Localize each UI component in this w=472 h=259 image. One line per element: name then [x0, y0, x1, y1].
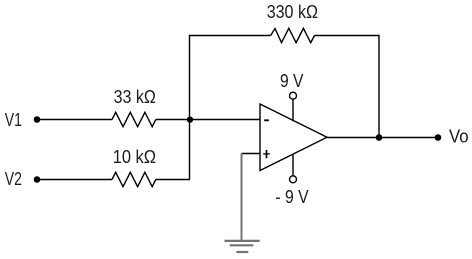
svg-text:330 kΩ: 330 kΩ — [267, 1, 318, 22]
pin minus sign — [264, 119, 269, 121]
terminal dot V1 — [34, 116, 41, 123]
terminal dot Vo — [435, 134, 442, 141]
wire feedback left leg — [189, 35, 191, 180]
svg-text:V1: V1 — [5, 109, 22, 130]
resistor R2 10k — [112, 172, 156, 186]
wire junction to inverting input — [190, 119, 260, 121]
terminal circle -9V — [290, 176, 297, 183]
wire feedback right leg — [378, 35, 380, 138]
wire feedback top left segment — [190, 35, 271, 37]
terminal circle +9V — [290, 92, 297, 99]
ground — [225, 241, 260, 252]
wire feedback top right segment — [315, 35, 380, 37]
resistor R3 330k feedback — [271, 28, 315, 42]
svg-text:33 kΩ: 33 kΩ — [114, 86, 156, 107]
wire V1 to R1 — [37, 119, 112, 121]
junction node A dot — [187, 116, 193, 122]
wire negative supply — [292, 154, 294, 176]
wire positive supply — [292, 99, 294, 121]
svg-text:- 9 V: - 9 V — [275, 186, 309, 207]
terminal dot V2 — [34, 176, 41, 183]
wire output — [327, 137, 438, 139]
wire non-inverting input to ground branch — [242, 153, 261, 155]
wire V2 to R2 — [37, 179, 112, 181]
pin plus sign — [263, 150, 270, 158]
wire R1 to junction — [156, 119, 190, 121]
op-amp U1 — [260, 104, 327, 171]
svg-text:Vo: Vo — [449, 125, 469, 146]
svg-text:9 V: 9 V — [280, 70, 304, 91]
resistor R1 33k — [112, 112, 156, 126]
wire ground vertical — [241, 154, 243, 241]
svg-text:V2: V2 — [5, 168, 22, 189]
junction dot output feedback — [376, 134, 383, 141]
svg-text:10 kΩ: 10 kΩ — [113, 146, 157, 167]
wire R2 to left leg — [156, 179, 190, 181]
